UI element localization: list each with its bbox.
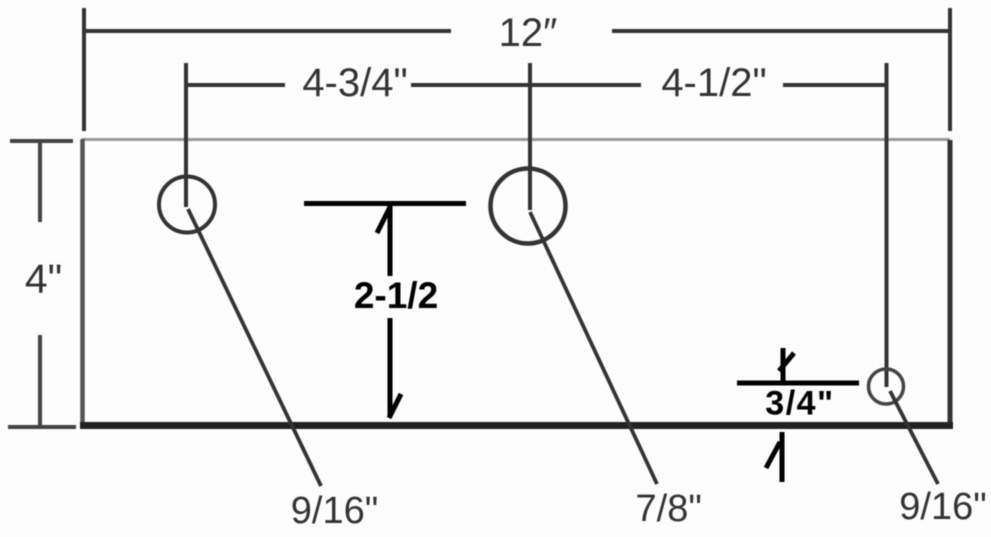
- dim 4-3/4in line left segment: [187, 83, 285, 87]
- svg-text:7/8": 7/8": [636, 488, 702, 530]
- dim 12in right extension tick: [948, 8, 952, 131]
- dim 2-1/2 arrow line upper: [388, 206, 393, 276]
- svg-text:4-1/2": 4-1/2": [661, 61, 766, 105]
- hole 9/16 left circle: [159, 177, 215, 233]
- plate bottom edge: [80, 422, 953, 429]
- dim 4in line lower segment: [38, 335, 42, 427]
- dim 4in bottom tick: [8, 425, 76, 429]
- dim 2-1/2 top bar: [304, 201, 466, 206]
- plate right edge: [948, 140, 953, 426]
- extension line to middle hole: [528, 63, 532, 210]
- leader line from left hole: [188, 209, 321, 486]
- extension line to right hole: [885, 63, 889, 387]
- leader line from right hole: [890, 391, 938, 484]
- dim 4in line upper segment: [38, 141, 42, 222]
- svg-text:9/16": 9/16": [899, 486, 986, 528]
- dim 4-1/2in line right segment: [783, 83, 887, 87]
- dim 4in top tick: [10, 139, 73, 143]
- hole 9/16 right circle: [869, 369, 904, 404]
- dim 12in left extension tick: [82, 8, 86, 131]
- hole 7/8 middle circle: [491, 169, 566, 244]
- dim 3/4 line: [737, 381, 859, 386]
- dim 3/4 upper arrow slash: [779, 353, 794, 371]
- dim 2-1/2 bottom arrow slash: [389, 394, 401, 418]
- svg-text:4-3/4": 4-3/4": [302, 61, 407, 105]
- svg-text:4": 4": [25, 256, 62, 302]
- dim 2-1/2 top arrow slash: [377, 207, 390, 233]
- plate left edge: [80, 139, 85, 427]
- dim 3/4 lower arrow stem: [780, 432, 785, 482]
- svg-text:3/4": 3/4": [765, 385, 834, 423]
- dim 12in line right segment: [612, 29, 950, 33]
- dim 3/4 lower arrow slash: [766, 442, 780, 468]
- extension line to left hole: [184, 63, 188, 207]
- dim line middle segment: [411, 83, 641, 87]
- plate top edge: [82, 138, 950, 141]
- svg-text:12″: 12″: [499, 11, 558, 55]
- leader line from middle hole: [530, 212, 657, 484]
- dim 12in line left segment: [84, 29, 451, 33]
- svg-text:9/16": 9/16": [291, 490, 378, 532]
- dim 2-1/2 arrow line lower: [388, 318, 393, 417]
- dim 3/4 upper arrow stem: [781, 348, 786, 381]
- svg-text:2-1/2: 2-1/2: [354, 275, 438, 316]
